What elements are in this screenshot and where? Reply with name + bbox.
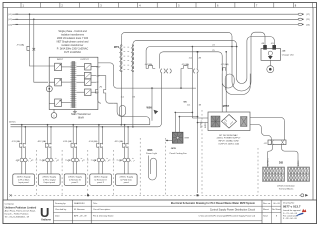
fuse F8 [261, 43, 267, 50]
svg-text:24VDC POWER SUPPLY: 24VDC POWER SUPPLY [217, 138, 241, 140]
svg-text:-F12 (4A): -F12 (4A) [37, 140, 46, 143]
svg-text:U: U [40, 205, 49, 220]
dashed separator [113, 150, 115, 195]
border left inner line [7, 8, 9, 201]
svg-text:(L1): (L1) [8, 14, 12, 16]
svg-text:Power Light: Power Light [146, 152, 157, 155]
note text block [57, 30, 89, 54]
caption MT5 [217, 134, 241, 146]
secondary winding box 3 [76, 79, 99, 86]
enclosure mark mid [87, 194, 89, 196]
branch circuit 4 [89, 124, 122, 185]
dashed panel boundary vertical [201, 110, 203, 195]
svg-text:24VDC Supply: 24VDC Supply [17, 177, 32, 179]
secondary winding box 4 [76, 89, 99, 96]
dashed separator [61, 150, 63, 195]
svg-text:Company:: Company: [5, 203, 15, 205]
power supply filter block [211, 116, 220, 127]
wire arrow marker at rail end [154, 110, 159, 115]
company info [5, 203, 37, 218]
svg-text:Electrical Schematic Drawing f: Electrical Schematic Drawing for PLC Bas… [171, 202, 256, 205]
wire long drop to enclosure [197, 123, 199, 194]
secondary winding box 1 [76, 64, 101, 71]
power supply MT5 box [208, 112, 250, 131]
svg-text:(17): (17) [306, 14, 310, 16]
bus line (L3) [8, 23, 310, 26]
wire L2 drop [34, 19, 48, 82]
primary winding tap box 3 [55, 99, 72, 107]
power supply output block [241, 117, 248, 127]
fuse F1 [17, 44, 30, 51]
border right inner line [312, 8, 314, 201]
wire MTS right col down to rail [132, 71, 134, 127]
title block frame [3, 200, 317, 224]
branch circuit 5 [114, 124, 137, 185]
svg-text:Avari Plaza, Fatima Jinnah Roa: Avari Plaza, Fatima Jinnah Road, [5, 210, 36, 213]
wire fan feeds from top [175, 112, 179, 132]
svg-text:1N: 1N [132, 96, 135, 98]
primary winding tap box 2 [55, 78, 72, 86]
lamp H1 [267, 66, 274, 73]
svg-text:OUTPUT: OUTPUT [80, 59, 89, 61]
switch MTS column 2 contacts [131, 45, 134, 72]
feeder line y46.5 [146, 47, 232, 69]
wire MT5 output to link [250, 118, 285, 141]
partner logo [296, 209, 306, 216]
svg-text:C:\Documents\UPL Drawings\MVR\: C:\Documents\UPL Drawings\MVR\Control Su… [198, 214, 255, 217]
svg-text:Charger Unit: Charger Unit [282, 53, 294, 56]
switch MTS column 1 contacts [119, 45, 122, 72]
svg-text:to PLC Digital: to PLC Digital [43, 178, 56, 181]
node tap L1 [29, 13, 31, 15]
svg-text:No Sheet: No Sheet [272, 208, 281, 211]
svg-text:MT 24V MONOVAC: MT 24V MONOVAC [219, 134, 238, 137]
terminal strip 1 [263, 167, 285, 182]
svg-text:to Remote IO: to Remote IO [69, 178, 82, 181]
hanging cable loop W04 [114, 103, 150, 125]
svg-text:INPUT: INPUT [57, 59, 64, 61]
wire MTS left col to charger [121, 32, 265, 91]
power supply bridge diamond [222, 115, 237, 129]
svg-text:8677 v 013.7: 8677 v 013.7 [283, 205, 301, 209]
fuse F5 [181, 63, 192, 69]
title cell [93, 202, 256, 218]
branch circuit 2 [37, 124, 70, 185]
svg-text:-F1 (2A): -F1 (2A) [17, 44, 25, 47]
svg-text:24VDC Distribution: 24VDC Distribution [277, 185, 296, 188]
svg-text:Panel Cooling Fan: Panel Cooling Fan [170, 153, 188, 155]
motor circle below transformer [51, 109, 57, 118]
node tap L2 [33, 19, 35, 21]
ground symbol below transformer [73, 109, 77, 114]
svg-text:panel 1: panel 1 [72, 182, 80, 184]
bus line (L2) [8, 18, 310, 21]
wire MTS left col down to rail [120, 71, 122, 125]
feeder line y51.8 [159, 52, 226, 112]
wire MTS right col to charger [133, 37, 275, 84]
svg-text:Output panel: Output panel [43, 181, 55, 184]
svg-text:Tel: +92-21-35660062 - 69: Tel: +92-21-35660062 - 69 [5, 217, 30, 219]
terminal strip 2 [288, 167, 310, 182]
svg-text:Unilever: Unilever [41, 219, 51, 222]
rail 0VDC [11, 73, 162, 127]
svg-text:24VDC Supply: 24VDC Supply [42, 177, 57, 179]
wire L1 drop [30, 14, 50, 66]
enclosure corner mark left [9, 194, 11, 196]
svg-text:Rev. no:: Rev. no: [263, 203, 271, 205]
dashed separator [87, 150, 89, 195]
svg-text:F - 28 - 04 - 09: F - 28 - 04 - 09 [283, 218, 298, 220]
svg-text:File & Directory Name:: File & Directory Name: [93, 214, 114, 217]
wire MT5 input pair down [191, 69, 193, 113]
connector single [193, 69, 198, 73]
branch circuit 3 [63, 124, 96, 185]
svg-text:panel: panel [124, 182, 130, 184]
svg-text:Terminal Blocks: Terminal Blocks [279, 187, 294, 190]
svg-text:24VDC+: 24VDC+ [267, 157, 269, 166]
dashed fan boundary vertical [164, 138, 166, 195]
svg-text:Sheet:: Sheet: [263, 208, 269, 211]
svg-text:MT57: MT57 [223, 105, 230, 108]
svg-text:to PLC Main: to PLC Main [18, 178, 30, 181]
svg-text:DIS: DIS [279, 162, 284, 165]
svg-text:Circuit Description:: Circuit Description: [93, 208, 111, 211]
fuse F9 [271, 43, 276, 50]
drawing credits cells [55, 202, 87, 217]
sheet number cells [263, 203, 281, 217]
fuse F7 [221, 63, 229, 70]
wire fan left stub [166, 139, 173, 141]
svg-text:(L3): (L3) [8, 24, 12, 26]
svg-text:Issued for approval: Issued for approval [283, 209, 301, 212]
dashed DIS boundary vertical [257, 148, 259, 195]
svg-text:Unilever Pakistan Limited: Unilever Pakistan Limited [5, 205, 37, 209]
svg-text:24VDC Supply: 24VDC Supply [94, 177, 109, 179]
svg-text:to Remote IO: to Remote IO [94, 178, 107, 181]
wire MT5 inputs [192, 118, 208, 123]
svg-text:MTR: MTR [185, 137, 190, 139]
svg-text:24VDC: 24VDC [9, 122, 16, 124]
node feeder taps [192, 46, 194, 48]
top column ticks and numbers [21, 3, 313, 8]
svg-text:-M7B: -M7B [171, 148, 177, 150]
charger unit box G8 [261, 49, 281, 61]
earth circle on transformer [46, 86, 52, 92]
svg-text:Input panel: Input panel [18, 181, 29, 184]
svg-text:Drawing by:: Drawing by: [55, 202, 66, 205]
svg-text:24VDC Supply: 24VDC Supply [68, 177, 83, 179]
svg-text:8kVA: 8kVA [78, 117, 84, 120]
secondary winding box 2 [76, 72, 100, 79]
svg-text:-F4 (4A): -F4 (4A) [145, 63, 153, 66]
svg-text:-F5 (6A): -F5 (6A) [182, 63, 190, 66]
dashed separator 5 [139, 138, 141, 195]
switch MTS linkage dashes [124, 47, 131, 70]
svg-text:Title:: Title: [93, 202, 98, 205]
fuse F4 [145, 63, 156, 69]
svg-text:0VDC-: 0VDC- [298, 159, 300, 166]
dashed enclosure bottom [11, 194, 301, 196]
svg-text:Checked by:: Checked by: [55, 209, 67, 211]
svg-text:M. Nauman: M. Nauman [74, 209, 86, 211]
cable loop W06 power light [146, 149, 157, 180]
link connector X2 [264, 140, 286, 145]
svg-text:-F11 (4A): -F11 (4A) [12, 140, 21, 143]
wire input stub 3 [49, 103, 54, 105]
primary winding tap box 1 [55, 63, 72, 70]
svg-text:W06: W06 [147, 149, 153, 152]
connector pair 1 [161, 69, 166, 73]
wire link to strip2 [282, 145, 299, 167]
branch circuit 1 [12, 124, 45, 185]
drawing number cell [283, 202, 301, 220]
svg-text:-F15 (4A): -F15 (4A) [114, 140, 123, 143]
svg-text:Total:: Total: [263, 214, 268, 217]
svg-text:-F13 (4A): -F13 (4A) [63, 140, 72, 143]
bus line (L1) [8, 13, 310, 16]
svg-text:MTS: MTS [114, 46, 120, 49]
enclosure end circle arrow [301, 194, 304, 197]
Unilever logo [40, 205, 51, 222]
svg-text:24VDC Supply: 24VDC Supply [119, 177, 134, 179]
svg-text:SHARFUDI: SHARFUDI [74, 202, 85, 205]
dashed separator [35, 150, 37, 195]
svg-text:0VDC-: 0VDC- [205, 121, 207, 128]
svg-text:(21): (21) [306, 19, 310, 21]
wire horizontals feeding fan [175, 112, 197, 116]
svg-text:(23): (23) [306, 24, 310, 26]
transformer T1 outer box [49, 57, 98, 109]
svg-text:INPUT: 110VAC 50HZ: INPUT: 110VAC 50HZ [218, 140, 239, 143]
svg-text:APR - 28 - 09: APR - 28 - 09 [74, 214, 87, 217]
fuse F1b cross [33, 48, 36, 51]
wire tap down to fuse F5 [191, 47, 193, 69]
svg-text:Date:: Date: [55, 214, 60, 217]
border top strip line [3, 7, 317, 9]
transformer core winding [70, 62, 76, 108]
svg-text:-F14 (4A): -F14 (4A) [89, 140, 98, 143]
svg-text:panel 2: panel 2 [97, 182, 105, 184]
svg-text:(L2): (L2) [8, 19, 12, 21]
svg-text:Control Supply Power Distribut: Control Supply Power Distribution Circui… [210, 208, 255, 211]
rail 24VDC+ [11, 88, 153, 125]
svg-text:to Field Instr.: to Field Instr. [120, 178, 132, 181]
svg-text:OUT: 2x110VAC: OUT: 2x110VAC [64, 51, 81, 54]
wire primary connects [49, 66, 54, 82]
svg-text:00 • 09: 00 • 09 [273, 203, 280, 205]
svg-text:-F7 (6A): -F7 (6A) [221, 63, 229, 66]
wire charger to lamp [269, 61, 271, 66]
wire secondary output run [91, 63, 196, 88]
svg-text:Karachi - 75530, Pakistan: Karachi - 75530, Pakistan [5, 213, 30, 216]
fuse F2 [95, 87, 105, 94]
wire fuse F5 left down [180, 69, 182, 89]
svg-text:W06: W06 [147, 107, 153, 110]
fan M7B box [172, 132, 183, 143]
wire link to strip1 [267, 145, 272, 167]
cable loop W5 [222, 74, 250, 95]
svg-text:OUTPUT: 24VDC 10A: OUTPUT: 24VDC 10A [218, 143, 239, 146]
